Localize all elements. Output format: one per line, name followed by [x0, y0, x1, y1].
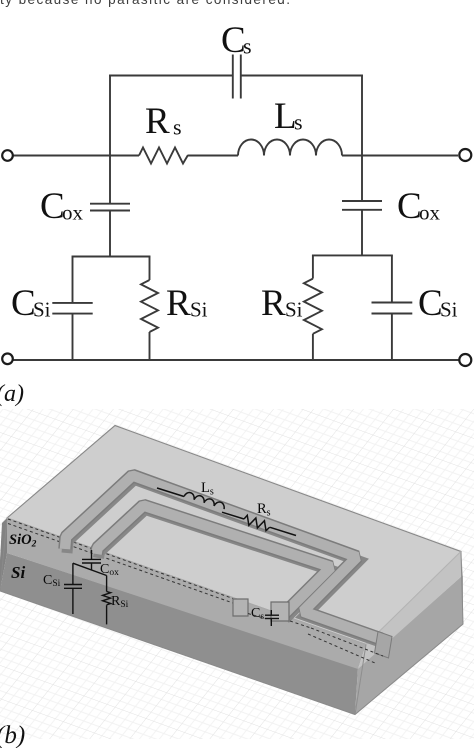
wire: bottom rail — [13, 359, 459, 361]
svg-text:C: C — [397, 186, 422, 227]
wire: CSi-left top lead — [72, 257, 74, 303]
spiral inductor outer turn: track surface — [65, 476, 381, 640]
wire: left shunt vertical Cox to tee bar — [109, 211, 111, 257]
wire: right tee bar — [313, 254, 392, 257]
svg-text:s: s — [243, 34, 252, 59]
black annotation line carrying Ls and Rs symbols — [157, 488, 296, 536]
substrate box right face: Si bulk — [355, 575, 463, 715]
wire: right vertical riser from top loop — [361, 75, 363, 156]
output feed drape down right face — [375, 632, 393, 659]
svg-text:Si: Si — [440, 298, 458, 322]
schematic (a) — [0, 0, 474, 410]
svg-text:Si: Si — [11, 563, 25, 582]
svg-text:C: C — [40, 186, 65, 227]
figure (b): 3D spiral inductor on Si substrate — [0, 408, 474, 748]
resistor RSi right (vertical) — [312, 255, 314, 278]
wire: right shunt vertical Cox to tee bar — [361, 210, 363, 256]
resistor RSi left (vertical) — [149, 257, 151, 281]
underpass dashed lines near front-right corner — [311, 628, 383, 656]
capacitor CSi right (horizontal plates) — [372, 302, 413, 304]
wire: top loop left horizontal to Cs — [109, 75, 233, 77]
wire: between Rs and Ls — [188, 155, 238, 157]
capacitor Cs symbol between pads — [270, 610, 272, 615]
substrate box front face: Si bulk — [0, 553, 358, 715]
inductor symbol Ls (small coil) — [184, 491, 226, 509]
box edge lines — [0, 426, 463, 715]
svg-text:s: s — [173, 115, 182, 140]
resistor Rs — [139, 148, 188, 164]
left sliver side face — [0, 518, 7, 591]
wire: RSi branch top lead — [106, 576, 108, 592]
svg-text:R: R — [145, 101, 170, 142]
capacitor CSi left (horizontal plates) — [52, 302, 92, 304]
svg-text:R: R — [166, 283, 191, 324]
svg-text:C: C — [221, 20, 246, 61]
capacitor Cox left (horizontal plates) — [90, 203, 130, 205]
resistor symbol Rs (small zigzag) — [243, 515, 271, 532]
wire: main horizontal right segment Ls to port2 — [342, 155, 458, 157]
wire: Cox to junction bus — [91, 563, 93, 570]
capacitor Cs (series feedback, vertical plates) — [232, 55, 234, 99]
svg-text:C: C — [11, 283, 36, 324]
port terminal 2 (top right) — [459, 149, 471, 161]
svg-text:ox: ox — [419, 201, 441, 225]
wire: from input pad down to Cox — [91, 550, 93, 559]
substrate box front face: SiO2 layer band — [7, 518, 366, 669]
substrate box right face: SiO2 layer band — [358, 552, 463, 670]
svg-text:Si: Si — [33, 298, 51, 322]
capacitor CSi symbol plates — [64, 584, 82, 586]
capacitor Cox right (horizontal plates) — [342, 200, 382, 202]
caption (b) — [0, 722, 25, 748]
spiral inductor inner turn: dark edge outline — [97, 506, 332, 616]
svg-text:R: R — [261, 283, 286, 324]
port terminal 4 (bottom right) — [459, 354, 471, 366]
pad block left of Cs — [233, 599, 248, 616]
underpass hidden-edge dashed row A along front edge — [8, 519, 233, 599]
substrate box top face (SiO2 surface) — [7, 426, 461, 645]
spiral inductor outer turn: dark edge outline — [65, 476, 381, 640]
port terminal 1 (top left) — [2, 150, 13, 161]
spiral inductor inner turn: track surface — [97, 506, 332, 616]
wire: main horizontal left segment port1 to resistor — [13, 155, 139, 157]
wire: CSi-right bottom lead — [391, 314, 393, 361]
resistor RSi symbol (small vertical zigzag) — [103, 592, 111, 605]
inductor Ls — [238, 140, 342, 156]
wire: CSi-left bottom lead — [72, 314, 74, 360]
spiral inductor outer turn: shadow/side thickness — [67, 480, 383, 644]
wire: CSi branch top lead — [72, 563, 74, 584]
wire: left tee bar — [73, 256, 150, 259]
front face parasitic circuit — [64, 550, 279, 626]
underpass dashed line right of Cs — [290, 621, 311, 628]
svg-text:C: C — [418, 283, 443, 324]
background perspective grid — [0, 409, 474, 739]
wire: CSi-right top lead — [391, 255, 393, 302]
port terminal 3 (bottom left) — [2, 354, 13, 365]
cropped caption text line at very top — [0, 0, 474, 7]
wire: slanted bus to CSi and RSi branches — [73, 563, 107, 575]
svg-text:ox: ox — [62, 201, 84, 225]
underpass dashed line between pad and Cs — [248, 614, 265, 619]
wire: right shunt vertical to Cox right — [361, 156, 363, 202]
svg-text:Si: Si — [190, 298, 208, 322]
underpass hidden-edge dashed row B along front edge — [8, 524, 233, 604]
pad block right of Cs (inner turn end) — [271, 602, 289, 621]
svg-text:s: s — [294, 110, 303, 135]
wire: RSi branch bottom lead — [106, 605, 108, 624]
svg-text:Si: Si — [285, 298, 303, 322]
wire: left vertical riser to top loop — [109, 75, 111, 156]
wire: left shunt vertical to Cox — [109, 156, 111, 204]
wire: top loop right horizontal from Cs — [241, 75, 363, 77]
capacitor Cox symbol plates — [82, 558, 101, 560]
wire: CSi branch bottom lead — [72, 588, 74, 614]
svg-text:(a): (a) — [0, 381, 24, 407]
labels on 3D figure — [9, 480, 271, 622]
spiral inductor inner turn: shadow/side thickness — [99, 510, 334, 620]
